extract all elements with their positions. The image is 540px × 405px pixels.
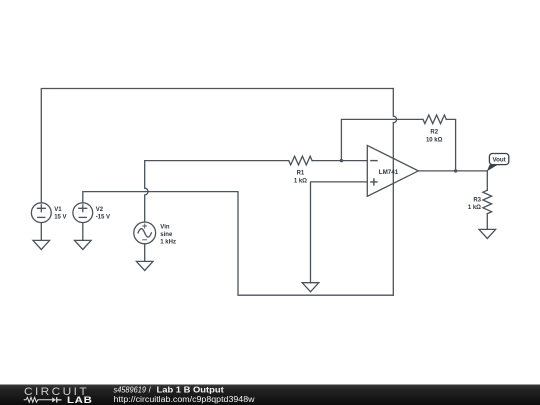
svg-text:15 V: 15 V — [54, 215, 66, 221]
Vin small minus — [143, 239, 147, 241]
logo diode — [52, 397, 56, 402]
svg-text:R2: R2 — [430, 130, 438, 136]
svg-text:1 kHz: 1 kHz — [160, 240, 176, 246]
op-amp U1 triangle — [367, 145, 418, 196]
sine source Vin circle — [134, 222, 156, 244]
svg-text:s4589619: s4589619 — [114, 386, 147, 395]
junction dot at output node — [454, 169, 457, 172]
wire: R3 bottom to ground — [486, 214, 488, 230]
svg-text:V1: V1 — [54, 207, 62, 213]
op-amp plus input marker — [371, 179, 377, 185]
wire: V1 negative terminal to ground — [40, 223, 42, 241]
logo resistor zigzag — [24, 397, 53, 402]
ground symbol under Vin — [136, 261, 153, 270]
ground symbol at non-inverting input — [302, 283, 319, 292]
wire: R2 right down to output node — [446, 119, 455, 170]
svg-text:-15 V: -15 V — [96, 215, 110, 221]
svg-text:Lab 1 B Output: Lab 1 B Output — [157, 386, 225, 395]
svg-text:LAB: LAB — [67, 395, 93, 405]
svg-text:sine: sine — [160, 232, 173, 238]
Vin small plus — [143, 224, 147, 228]
resistor R2 body — [423, 115, 446, 124]
ground symbol under R3 — [479, 229, 496, 238]
svg-text:10 kΩ: 10 kΩ — [426, 138, 443, 144]
V1 minus symbol — [38, 216, 45, 218]
ground symbol under V2 — [75, 240, 92, 249]
V2 minus symbol — [79, 216, 86, 218]
wire: V2 negative terminal to ground — [82, 223, 84, 241]
junction dot at inverting input node — [340, 159, 343, 162]
wire: Vout node down to R3 — [486, 171, 488, 190]
op-amp minus input marker — [371, 160, 377, 162]
V1 plus symbol — [37, 205, 45, 212]
wire: op-amp output to Vout node — [418, 170, 487, 172]
svg-text:http://circuitlab.com/c9p8qptd: http://circuitlab.com/c9p8qptd3948w — [114, 395, 255, 404]
voltage source V2 circle — [73, 203, 93, 223]
wire: Vin to R1 left — [145, 160, 289, 162]
ground symbol under V1 — [33, 240, 50, 249]
wire: feedback from inverting node up and right to R2 — [341, 119, 423, 160]
voltage source V1 circle — [31, 203, 51, 223]
wire: V+ drop through op-amp to negative rail, with hop over feedback — [393, 89, 396, 296]
svg-text:R1: R1 — [297, 171, 305, 177]
svg-text:V2: V2 — [96, 207, 104, 213]
svg-text:Vout: Vout — [492, 157, 505, 164]
svg-text:Vin: Vin — [160, 225, 170, 231]
svg-text:R3: R3 — [473, 197, 481, 203]
resistor R1 body — [289, 156, 312, 165]
wire: V2 positive terminal to negative supply rail under op-amp — [83, 192, 394, 296]
Vin sine wave symbol — [138, 229, 151, 237]
svg-text:LM741: LM741 — [379, 169, 399, 176]
resistor R3 body — [483, 190, 492, 214]
Vout flag box — [489, 154, 508, 165]
svg-text:1 kΩ: 1 kΩ — [468, 205, 481, 211]
wire: Vin negative terminal to ground — [144, 244, 146, 262]
Vout flag pointer — [487, 165, 498, 172]
wire: V1 positive terminal up and top supply rail to op-amp V+ — [41, 89, 393, 204]
wire: R1 right to op-amp inverting input — [312, 160, 367, 162]
svg-text:1 kΩ: 1 kΩ — [294, 179, 307, 185]
wire: op-amp non-inverting input to ground drop — [311, 182, 368, 283]
wire: Vin top terminal up with hop over V2 rail — [145, 161, 148, 222]
V2 plus symbol — [79, 205, 87, 212]
